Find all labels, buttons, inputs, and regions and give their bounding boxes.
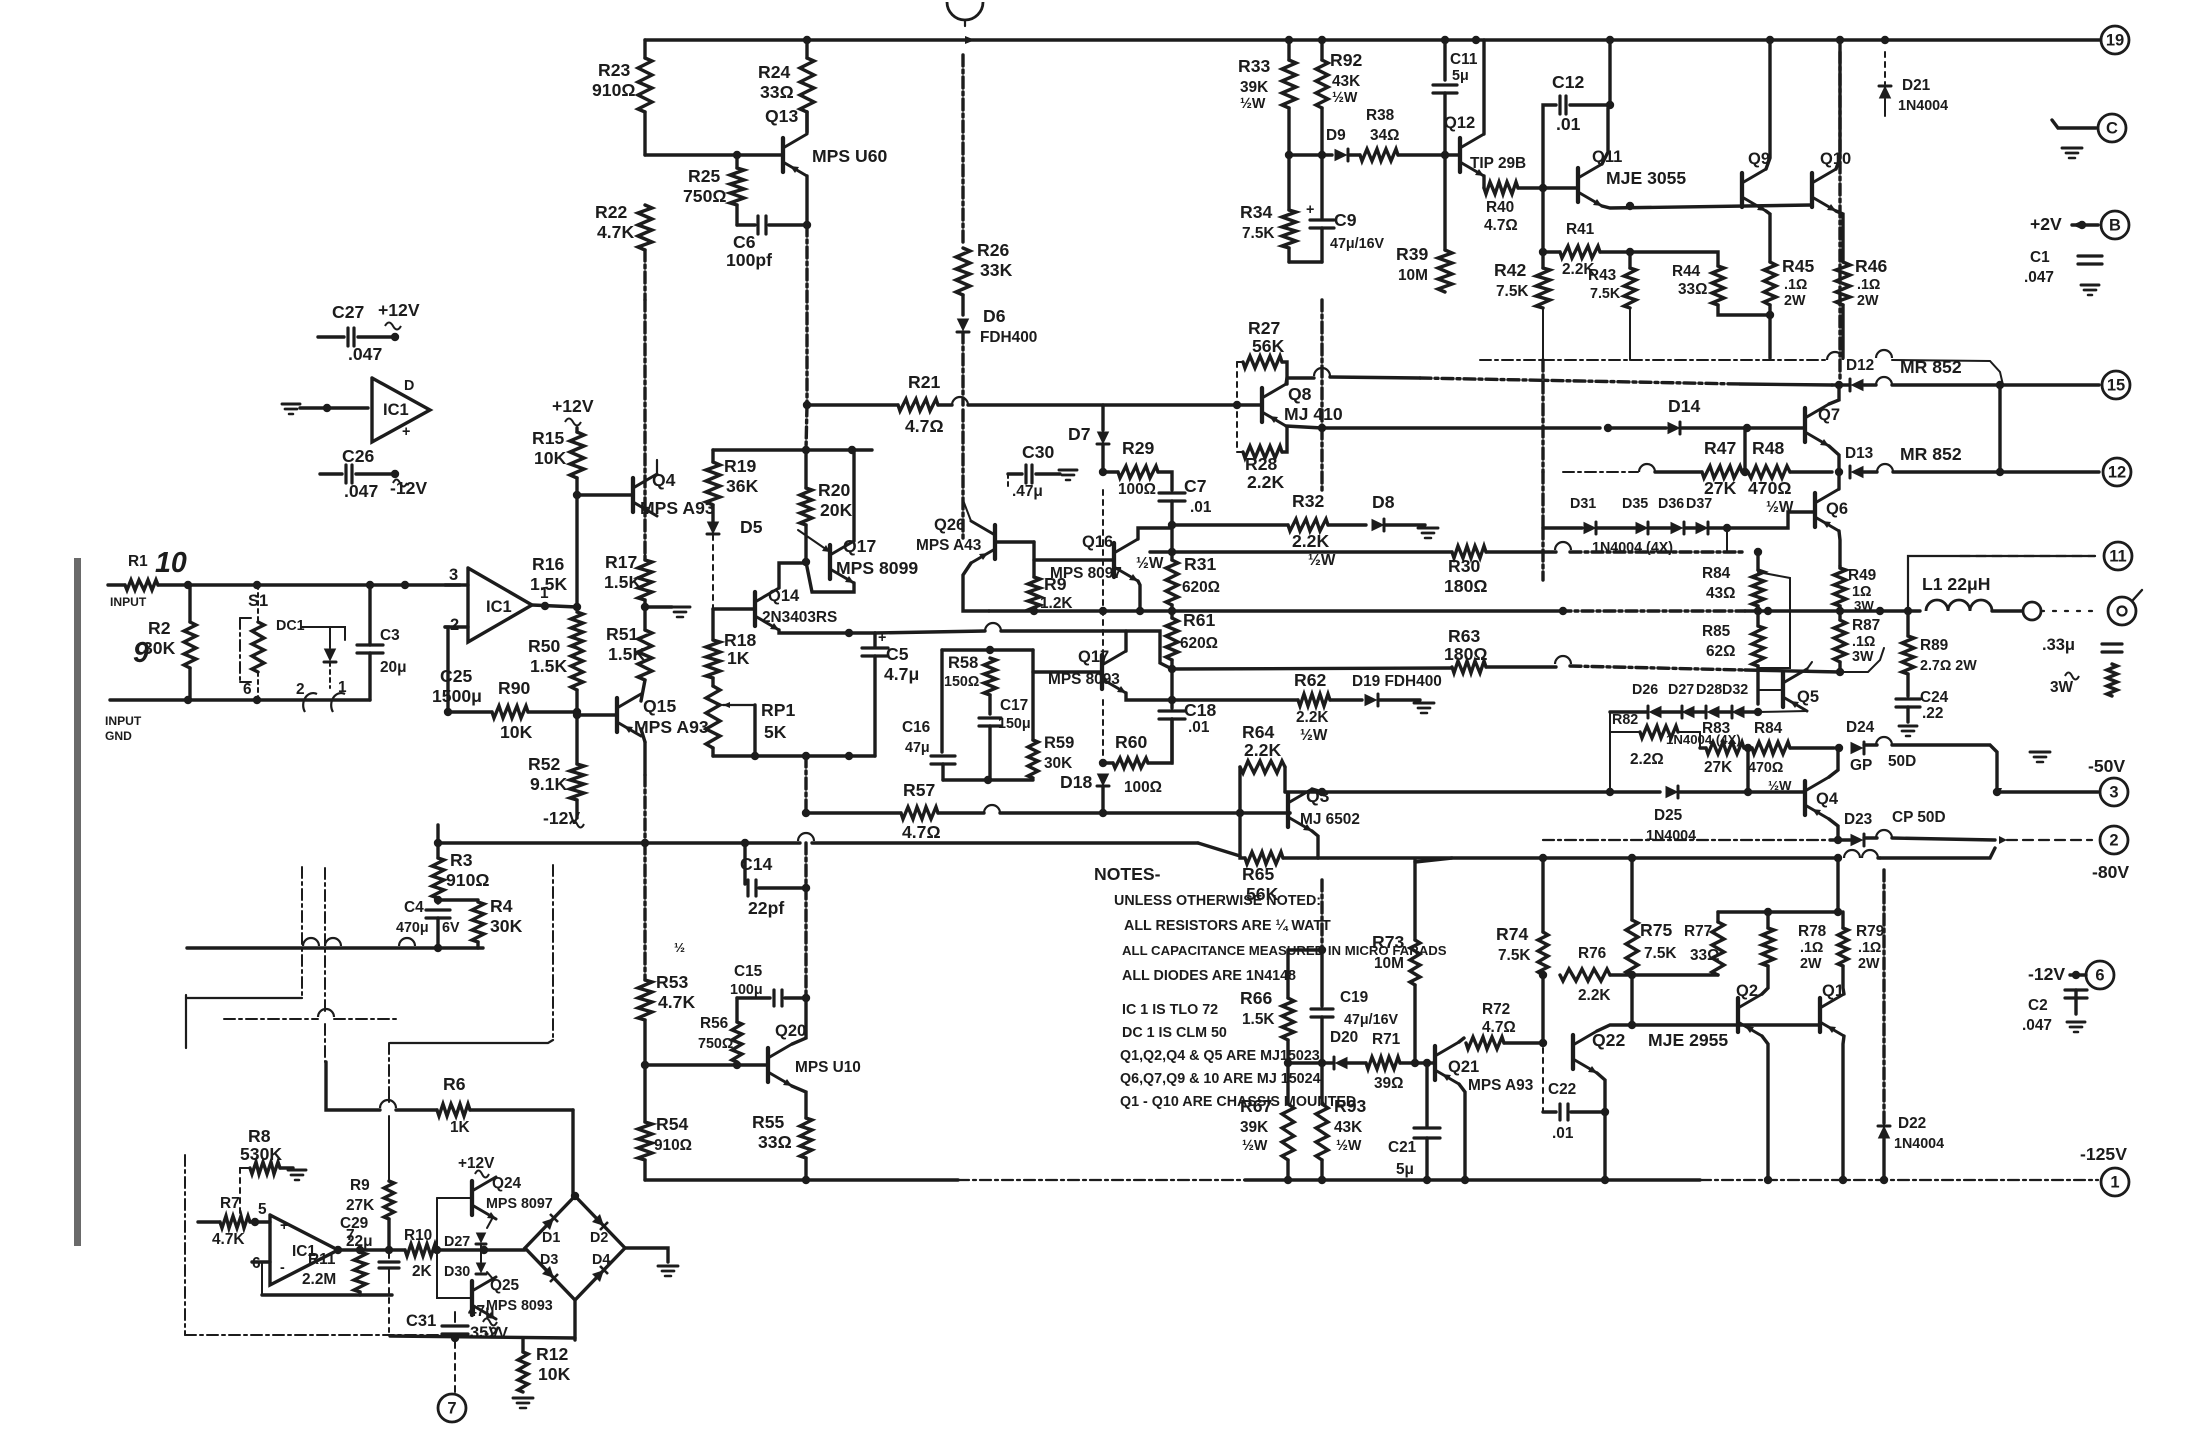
svg-text:D13: D13 — [1845, 445, 1873, 462]
terminal 1 — [2101, 1168, 2129, 1196]
resistor R6 — [437, 1104, 470, 1116]
svg-text:C29: C29 — [340, 1215, 368, 1232]
svg-text:Q20: Q20 — [775, 1022, 806, 1040]
svg-text:2.7Ω 2W: 2.7Ω 2W — [1920, 658, 1977, 674]
svg-text:2: 2 — [450, 616, 459, 634]
resistor R2 — [188, 585, 191, 622]
svg-text:.047: .047 — [2024, 269, 2054, 286]
pot RP1 — [706, 686, 720, 748]
svg-text:7.5K: 7.5K — [1498, 947, 1531, 964]
svg-text:39Ω: 39Ω — [1374, 1075, 1403, 1092]
transistor Q16 — [1112, 543, 1116, 577]
svg-text:3: 3 — [449, 566, 458, 584]
wire Q20 base — [645, 1063, 768, 1066]
svg-text:RP1: RP1 — [761, 700, 795, 720]
wire Q15 collector to R51 — [641, 680, 645, 701]
svg-text:30K: 30K — [1044, 755, 1072, 772]
resistor R1 — [125, 580, 158, 590]
resistor R28 — [1243, 446, 1282, 458]
svg-text:MPS A43: MPS A43 — [916, 537, 981, 554]
resistor R22 — [638, 205, 652, 250]
resistor R82 — [1610, 731, 1640, 733]
svg-text:47μ: 47μ — [468, 1303, 495, 1320]
wire right loop — [552, 865, 554, 1040]
svg-text:2W: 2W — [1857, 293, 1879, 309]
svg-text:150Ω: 150Ω — [944, 674, 979, 690]
svg-text:50D: 50D — [1888, 753, 1916, 770]
wire Q6 collector — [1837, 472, 1840, 489]
svg-text:12: 12 — [2108, 463, 2126, 481]
wire Q14 emitter — [779, 630, 875, 633]
svg-text:D4: D4 — [592, 1252, 610, 1268]
svg-text:MPS U10: MPS U10 — [795, 1059, 861, 1076]
svg-text:R58: R58 — [948, 654, 978, 672]
svg-text:10M: 10M — [1398, 267, 1428, 284]
svg-text:1.5K: 1.5K — [608, 644, 645, 664]
svg-text:C24: C24 — [1920, 689, 1949, 706]
svg-text:C31: C31 — [406, 1312, 436, 1330]
svg-text:R32: R32 — [1292, 491, 1324, 511]
svg-text:MJ 6502: MJ 6502 — [1300, 811, 1360, 828]
wire bias cell top — [713, 448, 872, 451]
wire R48 row — [1563, 471, 1638, 473]
vertical x1322 — [1320, 300, 1323, 428]
wire rail -2V — [390, 1336, 575, 1338]
resistor R60 — [1099, 759, 1107, 767]
svg-text:R33: R33 — [1238, 56, 1270, 76]
svg-text:47μ/16V: 47μ/16V — [1330, 236, 1385, 252]
svg-text:½W: ½W — [1332, 90, 1358, 106]
wire IC1a input — [300, 406, 368, 409]
svg-text:2W: 2W — [1800, 956, 1822, 972]
svg-text:R71: R71 — [1372, 1031, 1401, 1048]
wire Q11 emitter row — [1602, 205, 1812, 208]
svg-text:MPS U60: MPS U60 — [812, 146, 888, 166]
diode D1 — [542, 1218, 554, 1230]
wire Q8 emitter row — [1286, 426, 1322, 428]
svg-text:34Ω: 34Ω — [1370, 127, 1399, 144]
svg-text:.01: .01 — [1188, 719, 1210, 736]
svg-text:19: 19 — [2106, 31, 2124, 49]
svg-text:IC1: IC1 — [383, 401, 409, 419]
svg-text:150μ: 150μ — [998, 716, 1031, 732]
transistor Q17 lower — [1100, 655, 1104, 689]
diode string D31-D37 — [1543, 526, 1582, 529]
svg-text:33Ω: 33Ω — [1690, 947, 1719, 964]
svg-text:62Ω: 62Ω — [1706, 643, 1735, 660]
resistor R23 — [643, 40, 646, 58]
svg-text:C4: C4 — [404, 899, 424, 916]
transistor Q26 — [993, 525, 997, 559]
wire feedback row — [187, 946, 483, 949]
svg-text:D8: D8 — [1372, 492, 1395, 512]
wire D9 row — [1289, 153, 1332, 156]
wire Q17b emitter — [1126, 693, 1172, 700]
svg-text:5K: 5K — [764, 722, 787, 742]
wire R6 to bridge — [571, 1110, 574, 1194]
resistor R87 — [1838, 611, 1841, 620]
wire Q4out emitter — [1829, 748, 1838, 777]
wire Q22 collector — [1597, 1073, 1605, 1112]
svg-text:R66: R66 — [1240, 988, 1272, 1008]
svg-text:R39: R39 — [1396, 244, 1428, 264]
svg-text:R64: R64 — [1242, 722, 1274, 742]
resistor R63 — [1452, 661, 1486, 673]
wire dash x806 down — [804, 756, 807, 813]
svg-text:.01: .01 — [1552, 1125, 1574, 1142]
wire Q1 emitter — [1843, 966, 1844, 994]
resistor R12 — [521, 1339, 524, 1352]
svg-text:.1Ω: .1Ω — [1800, 940, 1823, 956]
resistor R49 — [1838, 566, 1841, 568]
resistor R51 — [643, 607, 646, 630]
wire IC1 output — [532, 605, 577, 607]
svg-text:5μ: 5μ — [1396, 1161, 1414, 1178]
svg-text:R46: R46 — [1855, 256, 1887, 276]
resistor R66 — [1288, 948, 1322, 951]
resistor R31 — [1166, 560, 1178, 605]
resistor R84b — [1752, 742, 1790, 754]
svg-text:39K: 39K — [1240, 1119, 1268, 1136]
svg-text:-125V: -125V — [2080, 1144, 2127, 1164]
transistor Q8 — [1260, 388, 1264, 422]
diode string D26-D32 — [1610, 710, 1647, 713]
svg-text:.1Ω: .1Ω — [1852, 634, 1875, 650]
resistor R77 — [1716, 912, 1719, 922]
svg-text:R29: R29 — [1122, 438, 1154, 458]
svg-text:R26: R26 — [977, 240, 1009, 260]
svg-text:4.7K: 4.7K — [658, 992, 695, 1012]
svg-text:R6: R6 — [443, 1074, 466, 1094]
capacitor C4 — [436, 898, 439, 903]
diode D2 — [592, 1214, 604, 1226]
capacitor C21 — [1425, 1063, 1428, 1126]
svg-text:10K: 10K — [500, 722, 533, 742]
svg-text:R82: R82 — [1612, 712, 1638, 728]
svg-text:D32: D32 — [1722, 682, 1748, 698]
svg-text:-80V: -80V — [2092, 862, 2129, 882]
resistor R78 — [1766, 912, 1769, 928]
svg-text:R43: R43 — [1588, 267, 1616, 284]
svg-text:7.5K: 7.5K — [1644, 945, 1677, 962]
svg-text:B: B — [2109, 216, 2121, 234]
wire speaker line y672 — [1486, 665, 1556, 668]
svg-text:C7: C7 — [1184, 476, 1207, 496]
svg-text:R28: R28 — [1245, 454, 1277, 474]
svg-text:Q4: Q4 — [1816, 790, 1839, 808]
wiper arcs — [303, 693, 317, 712]
transistor Q1 — [1818, 998, 1822, 1032]
svg-text:+2V: +2V — [2030, 214, 2062, 234]
svg-text:ALL RESISTORS ARE ¼ WATT: ALL RESISTORS ARE ¼ WATT — [1124, 918, 1331, 934]
resistor R44 — [1712, 266, 1724, 305]
svg-text:10M: 10M — [1374, 955, 1404, 972]
wire Q17 collector — [852, 450, 855, 541]
wire R6 row — [326, 1062, 380, 1110]
svg-text:22μ: 22μ — [346, 1233, 373, 1250]
resistor R54 — [638, 1122, 652, 1160]
svg-text:C1: C1 — [2030, 249, 2050, 266]
resistor R42 — [1536, 268, 1550, 308]
diode D19 — [1365, 694, 1378, 706]
svg-text:R20: R20 — [818, 480, 850, 500]
svg-text:R25: R25 — [688, 166, 720, 186]
wire Q26 emitter down — [963, 563, 989, 611]
svg-text:1N4004 (4X): 1N4004 (4X) — [1592, 540, 1673, 556]
svg-text:D3: D3 — [540, 1252, 558, 1268]
terminal 3 — [2100, 778, 2128, 806]
svg-text:D18: D18 — [1060, 772, 1092, 792]
capacitor C24 — [1896, 697, 1920, 700]
svg-text:D21: D21 — [1902, 77, 1931, 94]
resistor R48 — [1748, 466, 1790, 478]
capacitor C6 — [735, 205, 738, 225]
wire bridge right to gnd — [625, 1248, 668, 1262]
resistor R53 — [643, 843, 646, 980]
svg-text:R44: R44 — [1672, 263, 1701, 280]
svg-text:R56: R56 — [700, 1015, 728, 1032]
resistor R40 — [1484, 182, 1518, 194]
svg-text:R65: R65 — [1242, 864, 1274, 884]
output circle — [2023, 602, 2041, 620]
wire Q8 collector row — [1286, 378, 1314, 384]
diode D25 — [1666, 786, 1679, 798]
svg-text:R87: R87 — [1852, 617, 1880, 634]
wire bias feedback y843 — [438, 841, 800, 844]
svg-text:R85: R85 — [1702, 623, 1731, 640]
svg-text:R51: R51 — [606, 624, 638, 644]
svg-text:D26: D26 — [1632, 682, 1658, 698]
resistor R9 — [1032, 542, 1035, 577]
svg-text:C15: C15 — [734, 963, 763, 980]
svg-text:R45: R45 — [1782, 256, 1814, 276]
wire Q20 collector — [792, 998, 806, 1044]
diode D12 — [1851, 379, 1864, 391]
resistor R27 — [1237, 361, 1243, 363]
wire Q22 emitter up — [1597, 1025, 1632, 1031]
svg-text:D7: D7 — [1068, 424, 1091, 444]
svg-text:1K: 1K — [727, 648, 750, 668]
svg-text:D27: D27 — [444, 1234, 470, 1250]
svg-text:750Ω: 750Ω — [683, 186, 726, 206]
svg-text:.047: .047 — [344, 481, 378, 501]
svg-text:MPS 8097: MPS 8097 — [1050, 565, 1122, 582]
svg-text:R7: R7 — [220, 1195, 240, 1212]
resistor R62 — [1298, 694, 1330, 706]
bridge rectifier D1-D4 — [525, 1196, 625, 1300]
svg-text:R48: R48 — [1752, 438, 1784, 458]
svg-text:C17: C17 — [1000, 697, 1028, 714]
svg-text:750Ω: 750Ω — [698, 1036, 733, 1052]
svg-text:1N4004: 1N4004 — [1894, 1136, 1944, 1152]
svg-text:4.7K: 4.7K — [597, 222, 634, 242]
diode D3 — [542, 1266, 554, 1278]
svg-text:R19: R19 — [724, 456, 756, 476]
svg-text:C3: C3 — [380, 627, 400, 644]
boundary dash bottom-left — [184, 1155, 186, 1335]
resistor R18 — [706, 640, 720, 678]
wire Q12 collector — [1482, 40, 1485, 134]
svg-text:30K: 30K — [490, 916, 523, 936]
svg-text:R42: R42 — [1494, 260, 1526, 280]
svg-text:GP: GP — [1850, 757, 1872, 774]
svg-text:D5: D5 — [740, 517, 763, 537]
resistor R64 — [1240, 761, 1285, 773]
svg-text:27K: 27K — [1704, 759, 1732, 776]
svg-text:1500μ: 1500μ — [432, 686, 482, 706]
resistor R32 — [1288, 519, 1328, 531]
resistor R83 — [1706, 742, 1744, 754]
svg-text:R24: R24 — [758, 62, 790, 82]
wire Q3 collector row — [1322, 790, 1610, 793]
wire Q7 collector — [1829, 385, 1839, 404]
wire Q17 emitter — [806, 562, 854, 592]
svg-text:C9: C9 — [1334, 210, 1357, 230]
capacitor C11 — [1443, 40, 1446, 80]
wire Q16 emitter — [1138, 581, 1140, 611]
svg-text:R38: R38 — [1366, 107, 1395, 124]
transistor Q25 — [470, 1281, 474, 1315]
wire Q2 emitter — [1762, 966, 1768, 994]
svg-text:C22: C22 — [1548, 1081, 1576, 1098]
svg-text:2.2K: 2.2K — [1247, 472, 1284, 492]
wire output rail mid — [989, 609, 1560, 612]
svg-text:43K: 43K — [1332, 73, 1360, 90]
svg-text:R83: R83 — [1702, 720, 1730, 737]
wire Q5 collector emitter — [1807, 662, 1812, 669]
svg-text:R76: R76 — [1578, 945, 1606, 962]
svg-text:MPS A93: MPS A93 — [640, 498, 715, 518]
svg-text:33Ω: 33Ω — [758, 1132, 792, 1152]
svg-text:FDH400: FDH400 — [980, 329, 1037, 346]
svg-text:D36: D36 — [1658, 496, 1684, 512]
svg-text:D14: D14 — [1668, 396, 1700, 416]
svg-text:R78: R78 — [1798, 923, 1827, 940]
svg-text:R23: R23 — [598, 60, 630, 80]
svg-text:D9: D9 — [1326, 127, 1346, 144]
wire dash-dot collector return — [1542, 308, 1544, 360]
wire Q3 collector — [1312, 789, 1322, 792]
svg-text:R62: R62 — [1294, 670, 1326, 690]
resistor R11 — [354, 1252, 366, 1292]
zobel resistor — [2065, 673, 2079, 680]
transistor Q20 — [766, 1048, 770, 1082]
op-amp IC1 pwr — [372, 378, 430, 442]
svg-text:6: 6 — [243, 681, 252, 698]
transistor Q13 — [781, 138, 785, 172]
svg-text:R90: R90 — [498, 678, 530, 698]
svg-text:ALL DIODES ARE 1N4148: ALL DIODES ARE 1N4148 — [1122, 968, 1296, 984]
capacitor C7 — [1159, 491, 1185, 494]
wire R62 row — [1172, 698, 1298, 701]
svg-text:R15: R15 — [532, 428, 564, 448]
svg-text:IC1: IC1 — [486, 598, 512, 616]
svg-text:+: + — [280, 1218, 288, 1234]
op-amp IC1b — [270, 1215, 338, 1285]
resistor R61 — [1166, 618, 1178, 660]
svg-text:2K: 2K — [412, 1263, 432, 1280]
resistor R9 oscillator — [388, 1043, 390, 1092]
svg-text:R9: R9 — [350, 1177, 370, 1194]
svg-text:10K: 10K — [538, 1364, 571, 1384]
resistor R93 — [1320, 1063, 1323, 1104]
svg-text:9: 9 — [133, 637, 149, 669]
svg-text:35V: 35V — [470, 1324, 499, 1342]
wire D12 row — [1835, 381, 1843, 389]
resistor R38 — [1349, 153, 1360, 156]
optocoupler diode — [302, 627, 345, 640]
resistor R79 — [1836, 858, 1839, 912]
svg-text:R84: R84 — [1754, 720, 1783, 737]
wire feedback bottom — [262, 1293, 392, 1296]
svg-text:MJE 3055: MJE 3055 — [1606, 168, 1686, 188]
wire R57 row — [804, 811, 807, 814]
svg-text:R92: R92 — [1330, 50, 1362, 70]
svg-text:+: + — [1306, 202, 1314, 218]
svg-text:NOTES-: NOTES- — [1094, 864, 1161, 884]
svg-text:R22: R22 — [595, 202, 627, 222]
svg-text:2.2M: 2.2M — [302, 1271, 336, 1288]
svg-text:43Ω: 43Ω — [1706, 585, 1735, 602]
resistor R43 — [1628, 252, 1631, 268]
svg-text:D24: D24 — [1846, 719, 1875, 736]
svg-text:.1Ω: .1Ω — [1857, 277, 1880, 293]
svg-text:.22: .22 — [1922, 705, 1943, 722]
svg-text:470Ω: 470Ω — [1748, 760, 1783, 776]
svg-text:910Ω: 910Ω — [592, 80, 635, 100]
svg-text:Q25: Q25 — [490, 1277, 520, 1294]
svg-text:20K: 20K — [820, 500, 853, 520]
resistor R3 — [436, 825, 439, 843]
transistor Q17 vbe multiplier — [828, 545, 832, 579]
wire IC1b out — [338, 1248, 405, 1251]
svg-text:MJ 410: MJ 410 — [1284, 404, 1343, 424]
wire R21 row — [807, 403, 898, 406]
svg-text:R63: R63 — [1448, 626, 1480, 646]
svg-text:R61: R61 — [1183, 610, 1215, 630]
svg-text:R18: R18 — [724, 630, 756, 650]
wire Q12 emitter to R40 — [1482, 176, 1485, 188]
diode D22 — [1882, 870, 1885, 1124]
svg-text:½W: ½W — [1242, 1138, 1268, 1154]
wire terminal 11 branch — [1908, 556, 2095, 611]
wire Q7 emitter — [1829, 446, 1839, 472]
resistor R57 — [901, 807, 938, 819]
svg-text:C25: C25 — [440, 666, 472, 686]
terminal 11 — [2104, 542, 2132, 570]
svg-text:C16: C16 — [902, 719, 930, 736]
svg-text:R30: R30 — [1448, 556, 1480, 576]
svg-text:1N4004: 1N4004 — [1898, 98, 1948, 114]
svg-text:R47: R47 — [1704, 438, 1736, 458]
wire Q10 collector — [1836, 40, 1840, 169]
transistor Q11 — [1576, 168, 1580, 202]
svg-text:UNLESS OTHERWISE NOTED:: UNLESS OTHERWISE NOTED: — [1114, 893, 1321, 909]
svg-text:Q2: Q2 — [1736, 982, 1758, 1000]
op-amp IC1 main — [468, 568, 532, 642]
resistor R73 — [1413, 860, 1416, 940]
svg-text:R79: R79 — [1856, 923, 1884, 940]
svg-text:.47μ: .47μ — [1012, 483, 1043, 500]
capacitor C3 — [368, 585, 371, 645]
svg-text:R55: R55 — [752, 1112, 784, 1132]
diode D20 — [1335, 1057, 1348, 1069]
svg-text:-12V: -12V — [543, 808, 580, 828]
wire IC1b pin6 — [252, 1260, 270, 1263]
svg-text:Q6: Q6 — [1826, 500, 1848, 518]
svg-text:C21: C21 — [1388, 1139, 1417, 1156]
resistor R47 — [1702, 466, 1742, 478]
